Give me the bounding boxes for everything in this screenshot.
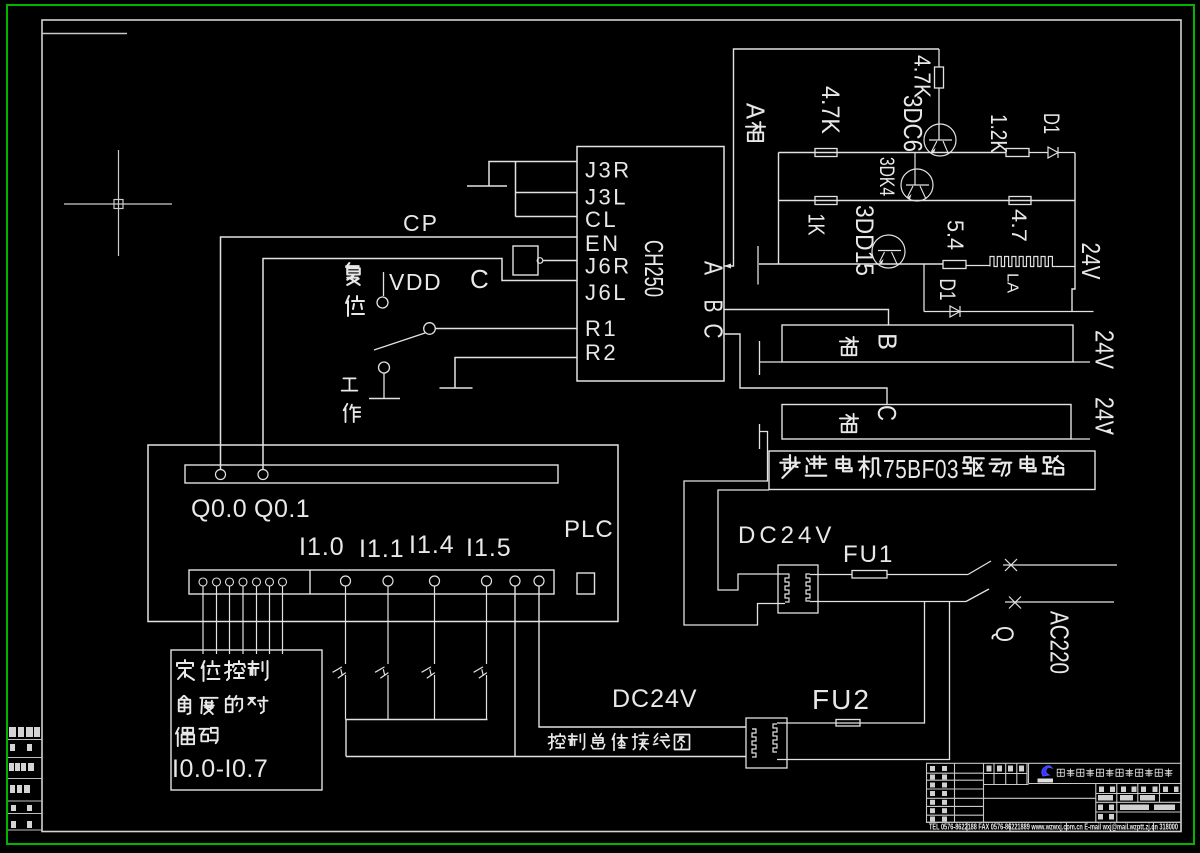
resistor 5.4 body [943,261,966,269]
title strip tiny text [9,727,40,828]
input terminal I0.0 [199,578,207,586]
wire CL [516,216,577,218]
inductor LA comb [990,257,1056,267]
wire 5.4 to inductor [966,265,990,267]
right riser 24V A [1072,153,1075,312]
encoder text line1 定位控制 [177,660,194,680]
svg-text:1K: 1K [804,214,830,237]
wire2 rail [779,200,1076,202]
svg-text:VDD: VDD [389,269,442,295]
svg-text:DC24V: DC24V [612,685,698,713]
wire right input branch down [539,586,746,727]
B phase box [782,325,1073,362]
wire3 emitter rail [759,263,943,265]
left rail riser [778,153,780,265]
svg-text:D1: D1 [935,279,960,301]
svg-text:24V: 24V [1090,330,1120,370]
svg-text:Q0.0: Q0.0 [191,495,247,523]
svg-text:DC24V: DC24V [738,522,835,549]
svg-text:B: B [873,333,903,350]
input terminal right 0 [341,576,351,586]
input terminal I0.3 [239,578,247,586]
B box bottom extension [760,361,782,363]
input terminal right 5 [534,576,544,586]
wire T1 left bottom to tap [684,432,785,626]
wire3 drop to wire4 [923,264,925,312]
junction arrow at A pin [724,264,731,269]
svg-text:C: C [470,264,489,294]
capacitor C box [513,246,538,275]
driver box 步进电机75BF03驱动电路 [769,451,1095,490]
contact stem at tap [759,424,761,449]
terminal bubble VDD [377,297,388,308]
svg-text:CH250: CH250 [639,240,669,297]
svg-text:C: C [699,324,729,339]
transformer T1 right winding [806,574,810,601]
wire J3R to contact [489,162,577,187]
terminal bubble work [379,362,390,373]
wire input 3 lower [486,675,488,720]
svg-text:4.7: 4.7 [1007,209,1030,242]
svg-text:A: A [741,103,771,120]
PLC output bar [185,465,558,483]
frame fold tick top-left [42,33,127,35]
output terminal Q0.0 [216,470,226,480]
transformer T2 left winding [752,729,756,757]
svg-text:R1: R1 [585,316,618,341]
wire I1.5 branch down [514,586,516,757]
transistor V3 3DD15 [872,235,905,268]
input terminal I0.5 [266,578,274,586]
svg-text:24V: 24V [1076,243,1106,281]
wire I0.5 to encoder box [269,586,271,654]
title block [927,763,1182,831]
svg-text:A: A [699,261,729,276]
wire I0.1 to encoder box [216,586,218,654]
svg-text:AC220: AC220 [1045,611,1075,674]
svg-text:CP: CP [403,210,439,236]
input terminal right 2 [430,576,440,586]
bus drop to DC24V return [345,720,347,757]
input terminal I0.1 [213,578,221,586]
switch Q lower X mark [1009,597,1021,609]
svg-text:J6L: J6L [585,280,628,305]
IC U1 CH250 body [577,147,724,382]
wire CP to EN [221,237,577,470]
svg-text:C: C [872,405,902,421]
wire inductor to riser [1056,266,1075,268]
resistor R1 4.7K vertical body [938,49,940,67]
svg-text:3DK4: 3DK4 [875,157,898,196]
svg-text:24V: 24V [1090,397,1120,436]
ground lead under work bubble [383,373,385,399]
svg-text:TEL 0576-8622188 FAX 0576-8622: TEL 0576-8622188 FAX 0576-86221889 www.w… [929,823,1178,832]
svg-text:I1.4: I1.4 [409,531,455,559]
resistor 1K body [815,197,837,205]
capacitor C output bubble [537,258,543,264]
fuse FU1 body [852,571,887,579]
wire R1 from switch [436,328,577,330]
wire B output [724,310,889,326]
PLC box [148,445,618,622]
contact switch SB3 [474,667,487,678]
title block tiny row texts [930,766,1179,822]
resistor 1.2K body [1006,149,1029,157]
wire I0.4 to encoder box [256,586,258,654]
wire A output riser [724,49,939,266]
wire T2 primary bottom to AC return [777,602,950,760]
contact switch SB0 [333,667,346,678]
resistor 4.7 body [1009,197,1031,205]
wire R2 to ground [455,358,577,389]
transformer T2 right winding [773,724,777,752]
svg-text:1.2K: 1.2K [986,114,1012,154]
input terminal right 4 [510,576,520,586]
wire4 freewheel rail [924,311,1094,313]
input terminal I0.2 [226,578,234,586]
wire DC24V return bus [346,756,746,758]
input terminal I0.6 [279,578,287,586]
PLC input bar [189,570,554,594]
PLC aux square [577,573,595,594]
24V stub C [1071,438,1090,440]
junction arrow near driver box [1104,429,1111,434]
wire AC220 line lower [1005,601,1114,603]
wire input 2 upper [434,586,436,664]
ground bar work [369,398,400,400]
svg-text:I0.0-I0.7: I0.0-I0.7 [172,755,268,783]
svg-text:Q0.1: Q0.1 [254,495,310,523]
svg-text:J6R: J6R [585,254,632,279]
input terminal right 3 [482,576,492,586]
input terminal right 1 [383,576,393,586]
svg-text:I1.5: I1.5 [466,534,512,562]
diode D1 bottom [950,306,960,317]
svg-text:FU1: FU1 [843,541,894,568]
svg-text:D1: D1 [1039,113,1064,134]
wire C box to J6R [543,260,577,262]
driver box title text [780,455,799,478]
crosshair cursor [64,150,172,256]
contact stem B [759,341,761,375]
wire J3L [516,192,577,194]
svg-text:J3R: J3R [585,158,632,183]
switch Q lower blade [966,589,989,602]
title strip table (left margin) [8,740,42,831]
company logo [1042,766,1052,776]
svg-text:B: B [699,300,729,313]
contact switch SB1 [375,667,388,678]
encoder text line3 偶码 [176,728,194,746]
company name [1057,769,1172,777]
svg-text:J3L: J3L [585,185,628,210]
svg-text:I1.0: I1.0 [299,533,345,561]
switch Q upper blade [968,561,991,575]
svg-text:FU2: FU2 [812,684,871,715]
switch blade (reset/work selector) [424,323,436,335]
svg-text:PLC: PLC [564,516,614,543]
wire C output [724,334,887,405]
wire T1 right bottom to switch [810,601,966,603]
wire AC220 line upper [1003,564,1117,566]
svg-text:I1.1: I1.1 [359,535,405,563]
svg-text:4.7K: 4.7K [910,55,936,99]
transistor V2 3DK4 [914,153,916,186]
label 工作 [342,378,358,390]
transformer T1 left winding [785,574,789,602]
wire I0.6 to encoder box [282,586,284,654]
svg-text:5.4: 5.4 [943,220,969,250]
wire 1.2K to D1 to riser [1029,152,1048,154]
svg-text:Q: Q [990,626,1018,642]
input bar divider [309,570,311,594]
fuse FU2 body [836,720,860,727]
wire input 0 lower [345,675,347,720]
label B相 [840,337,858,355]
contact stem wire3 [757,246,759,285]
24V stub B [1073,361,1090,363]
output terminal Q0.1 [258,470,268,480]
wire input 2 lower [434,675,436,720]
transformer T2 body [746,718,787,768]
wire Q0.1 to J6L via C node [263,259,577,471]
input bus [346,719,488,721]
svg-text:R2: R2 [585,340,618,365]
svg-text:3DD15: 3DD15 [850,205,878,276]
wire I0.0 to encoder box [202,586,204,654]
svg-text:75BF03: 75BF03 [883,454,959,484]
wire T2 secondary top [752,728,756,730]
svg-text:4.7K: 4.7K [816,86,844,134]
wire input 0 upper [345,586,347,664]
wire input 1 upper [387,586,389,664]
diode D1 top [1048,147,1058,158]
wire vertical joining J3R/J3L/CL [515,162,517,217]
C phase box [782,405,1071,440]
wire I0.2 to encoder box [229,586,231,654]
wire T2 primary top to FU2 and up [777,602,925,724]
transformer T1 body [778,565,818,613]
svg-text:CL: CL [585,207,618,232]
svg-text:3DC6: 3DC6 [898,95,928,152]
wire T1 right top to FU1 [810,574,852,576]
wire1 base rail [779,152,1007,154]
wire input 3 upper [486,586,488,664]
wire I0.3 to encoder box [242,586,244,654]
contact switch SB2 [422,667,435,678]
svg-text:LA: LA [1004,273,1021,293]
encoder box 定位控制 [171,650,322,790]
drawing title 控制总体接线图 [549,734,566,750]
ground bar R2 [440,387,473,389]
svg-text:EN: EN [585,231,621,256]
transistor V1 3DC6 [924,124,956,156]
input terminal I0.4 [253,578,261,586]
label 复位 [346,263,360,285]
switch Q upper X mark [1005,559,1017,571]
wire FU1 to switch [887,574,968,576]
encoder text line2 角度的对 [179,696,191,714]
contact bar under J3R wire [467,185,507,187]
label VDD with tick [383,272,385,296]
wire input 1 lower [387,675,389,720]
resistor 4.7K horizontal body [815,149,837,157]
wire T1 left top jog to driver box [718,490,785,590]
